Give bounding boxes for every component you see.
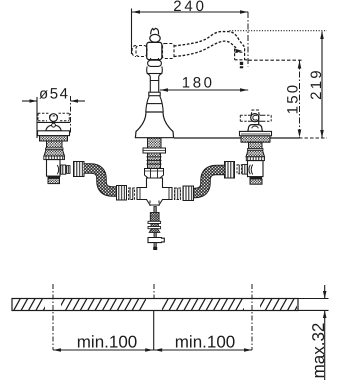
left valve flare: [44, 150, 65, 156]
svg-text:min.100: min.100: [175, 333, 235, 352]
right valve handle ring: [251, 114, 259, 122]
right valve handle arms: [240, 115, 271, 121]
stem washer2: [148, 227, 161, 229]
stem cone: [149, 229, 160, 233]
countertop bar: [12, 299, 298, 311]
spout outlet: [235, 48, 249, 60]
right valve shank break ring: [248, 149, 264, 151]
left tailpiece coupling: [129, 188, 135, 200]
dimension min100 arrows: [53, 348, 252, 352]
stem threaded block: [150, 213, 159, 222]
left valve dome: [46, 125, 61, 131]
right valve bottom band: [250, 179, 262, 184]
dimension diameter 54 line: [22, 97, 85, 138]
dimension 240 line: [132, 9, 249, 55]
right valve thread arcs row: [246, 157, 264, 161]
spout lower outline: [174, 41, 237, 56]
outlet reference dashed line: [249, 59, 303, 61]
left valve outlet arcs: [57, 165, 61, 175]
dimension 219 line: [321, 32, 323, 138]
dimension max32 extension lines: [298, 285, 329, 380]
deck line: [174, 137, 299, 139]
left valve coupling: [61, 165, 66, 174]
pin tip: [153, 247, 157, 250]
hole centerline left: [52, 284, 54, 350]
right valve shank: [249, 142, 263, 148]
left valve thread arcs row: [44, 156, 65, 160]
stem washer: [148, 221, 161, 223]
spout nose tip: [235, 49, 242, 53]
right valve base ring: [241, 136, 270, 142]
right valve flare: [246, 150, 265, 157]
column neck and beads: [146, 58, 163, 112]
left valve body: [47, 160, 61, 177]
left valve bonnet line: [37, 121, 70, 123]
svg-text:219: 219: [308, 68, 325, 100]
top reference dotted line: [230, 30, 328, 32]
left valve handle ring: [50, 114, 58, 122]
right hose end nut: [183, 186, 194, 201]
dimension 150 arrows: [298, 61, 302, 138]
stem rod2: [154, 232, 156, 237]
spout upper outline: [174, 32, 245, 49]
left nub (hidden): [132, 46, 147, 57]
column shank below deck: [148, 138, 162, 148]
svg-text:180: 180: [182, 75, 215, 92]
spout outlet centerline: [247, 12, 249, 67]
right valve coupling: [242, 165, 247, 175]
right hose: [194, 170, 225, 193]
aerator tip: [240, 62, 243, 68]
right valve inlet arcs: [249, 165, 253, 175]
right connector (hidden): [163, 44, 175, 59]
left valve bottom band: [48, 178, 60, 183]
left hose: [84, 169, 118, 192]
left valve base ring: [40, 136, 68, 141]
right valve escutcheon plate: [240, 131, 272, 135]
shank threads: [148, 153, 161, 169]
right valve handle top prong: [251, 110, 259, 115]
svg-text:ø54: ø54: [39, 86, 70, 103]
dimension 150 line: [299, 60, 301, 138]
hole centerline right: [251, 284, 253, 350]
dimension min100 line: [53, 349, 252, 351]
tee body: [137, 178, 172, 205]
spout column body block: [147, 42, 162, 59]
mounting bracket: [148, 238, 164, 243]
right valve body: [248, 161, 264, 177]
centre stem dashes: [150, 201, 159, 207]
right valve dome: [248, 125, 263, 132]
right hose nut: [225, 162, 235, 179]
valve centerline right of dim 54: [70, 96, 72, 133]
svg-text:240: 240: [173, 0, 206, 15]
svg-text:min.100: min.100: [77, 333, 137, 352]
dimension 180 line: [160, 89, 248, 91]
right tailpiece coupling: [175, 188, 181, 200]
hole centerline middle: [153, 284, 155, 298]
stem block2: [151, 224, 158, 227]
left valve handle (hidden): [38, 113, 69, 121]
left hose nut: [74, 162, 85, 177]
right valve olive: [237, 165, 242, 174]
shank washer: [143, 148, 166, 153]
svg-text:150: 150: [284, 83, 301, 115]
dimension 219 arrows: [320, 31, 324, 138]
svg-text:max.32: max.32: [309, 323, 328, 379]
spout column finial ball: [150, 28, 160, 42]
right valve step: [250, 177, 263, 179]
left valve olive: [67, 166, 70, 174]
mounting nut: [145, 169, 164, 179]
stem rod: [154, 207, 156, 214]
pop-up pin: [154, 243, 156, 247]
left valve step: [48, 176, 61, 178]
left valve shank break ring: [46, 148, 64, 150]
dimension max32 arrows: [323, 291, 327, 318]
left valve shank: [47, 141, 63, 148]
dimension 180 arrows: [160, 88, 248, 92]
column skirt: [135, 112, 173, 138]
right valve handle front stem: [258, 116, 260, 130]
left hose end nut: [117, 186, 127, 201]
left valve escutcheon plate: [38, 131, 70, 136]
dimension 240 arrows: [132, 10, 248, 14]
dimension diameter 54 arrows: [30, 99, 79, 103]
